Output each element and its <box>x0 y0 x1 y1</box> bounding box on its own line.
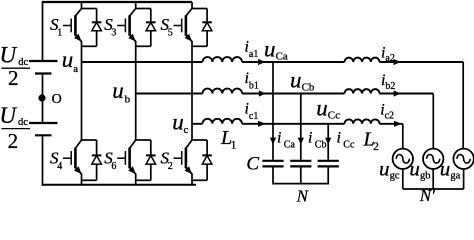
svg-text:Cc: Cc <box>343 140 355 151</box>
label C <box>246 154 259 175</box>
node u_a <box>62 47 78 75</box>
current arrow i_Ca <box>270 138 276 145</box>
svg-text:4: 4 <box>57 161 62 172</box>
svg-text:2: 2 <box>168 161 173 172</box>
wire: phase c from L2 to grid source <box>379 124 403 149</box>
node N&#8242; <box>419 186 435 205</box>
svg-text:Cb: Cb <box>315 140 327 151</box>
diode D4 (anti-parallel with S4) <box>82 140 102 180</box>
wire: capacitor neutral bus <box>272 183 329 185</box>
svg-text:u: u <box>112 78 124 103</box>
label i_b2 <box>381 72 395 92</box>
svg-text:ga: ga <box>450 171 460 182</box>
diode D1 (anti-parallel with S1) <box>82 9 102 47</box>
wire: top DC rail <box>43 1 193 3</box>
svg-text:u: u <box>409 156 420 180</box>
wire: phase b from bridge to L1 <box>136 93 203 95</box>
inductor L1 phase b <box>203 89 243 94</box>
inductor L2 phase c <box>345 119 380 123</box>
wire: phase a from bridge to L1 <box>82 61 203 63</box>
diode D3 (anti-parallel with S3) <box>136 9 156 47</box>
wire: capacitor branch Cc <box>327 124 329 160</box>
transistor S5 (top IGBT leg) <box>174 2 208 42</box>
node N <box>296 186 310 205</box>
svg-text:3: 3 <box>111 27 116 38</box>
node u_b <box>112 78 130 106</box>
DC source Udc/2 upper <box>29 61 58 74</box>
current arrow i_c1 <box>258 121 265 127</box>
transistor S6 (bottom IGBT leg) <box>117 140 151 186</box>
wire: capacitor branch Ca <box>272 62 274 160</box>
svg-text:Cb: Cb <box>302 82 315 94</box>
wire: left DC link lower segment <box>42 135 44 186</box>
inductor L1 phase a <box>203 57 243 62</box>
svg-text:5: 5 <box>168 27 173 38</box>
label i_a2 <box>381 44 395 64</box>
AC source u_ga <box>453 149 473 169</box>
wire: grid neutral bus <box>403 188 464 190</box>
label L2 <box>363 129 380 153</box>
node u_c <box>172 110 188 136</box>
transistor S1 (top IGBT leg) <box>63 2 97 42</box>
wire: source gb to neutral bus <box>432 169 434 189</box>
svg-text:c1: c1 <box>249 111 258 122</box>
label S3 <box>104 15 116 39</box>
current arrow i_a1 <box>258 59 265 65</box>
svg-text:N′: N′ <box>419 186 435 205</box>
wire: capacitor branch Cb <box>300 94 302 160</box>
svg-text:u: u <box>172 110 184 135</box>
svg-text:2: 2 <box>373 141 379 153</box>
wire: phase a from L2 to grid source <box>379 62 463 149</box>
wire: left DC link upper segment <box>42 1 44 60</box>
svg-text:dc: dc <box>18 117 28 128</box>
label S2 <box>161 148 173 172</box>
current arrow i_Cb <box>298 138 304 145</box>
svg-text:1: 1 <box>57 27 62 38</box>
svg-text:1: 1 <box>231 140 237 152</box>
label S6 <box>104 148 116 172</box>
svg-text:u: u <box>316 96 328 121</box>
capacitor C phase b <box>290 161 311 184</box>
label i_Ca <box>277 129 295 150</box>
label i_c1 <box>245 100 259 121</box>
label u_Ca <box>264 37 288 63</box>
wire: phase a from L1 to L2 <box>242 61 345 63</box>
inductor L2 phase a <box>345 58 380 62</box>
wire: phase b from L1 to L2 <box>242 93 345 95</box>
wire: source ga to neutral bus <box>463 169 465 189</box>
svg-text:c: c <box>184 124 189 136</box>
svg-text:u: u <box>62 47 74 72</box>
wire: leg vertical (phase node) <box>135 41 137 140</box>
svg-text:a: a <box>73 63 78 75</box>
svg-text:Cc: Cc <box>328 110 340 122</box>
svg-text:i: i <box>308 129 312 146</box>
svg-text:gc: gc <box>390 171 400 182</box>
label i_b1 <box>245 70 259 91</box>
current arrow i_a2 <box>394 59 401 65</box>
svg-text:u: u <box>264 37 276 62</box>
svg-text:6: 6 <box>111 161 116 172</box>
svg-text:a2: a2 <box>385 53 394 64</box>
svg-text:dc: dc <box>18 57 28 68</box>
label L1 <box>220 127 237 151</box>
transistor S3 (top IGBT leg) <box>117 2 151 42</box>
diode D2 (anti-parallel with S2) <box>192 140 212 180</box>
wire: leg vertical (phase node) <box>191 41 193 140</box>
transistor S4 (bottom IGBT leg) <box>63 140 97 186</box>
svg-text:N: N <box>296 186 310 205</box>
label u_Cc <box>316 96 340 122</box>
label u_Cb <box>290 68 315 94</box>
AC source u_gc <box>393 149 413 169</box>
label u_gb <box>409 156 430 181</box>
label S1 <box>50 15 62 39</box>
svg-text:U: U <box>0 42 18 67</box>
AC source u_gb <box>423 149 443 169</box>
svg-text:b: b <box>125 94 131 106</box>
label i_c2 <box>380 102 394 122</box>
svg-text:u: u <box>440 156 451 180</box>
svg-text:a1: a1 <box>249 49 258 60</box>
node O (DC midpoint) <box>38 92 61 107</box>
current arrow i_b2 <box>394 90 401 96</box>
current arrow i_c2 <box>394 121 401 127</box>
svg-text:Ca: Ca <box>284 140 296 151</box>
label i_Cb <box>308 129 326 150</box>
svg-text:u: u <box>290 68 302 93</box>
wire: phase c from bridge to L1 <box>192 123 203 125</box>
wire: leg vertical (phase node) <box>81 41 83 140</box>
inductor L1 phase c <box>203 119 243 124</box>
wire: phase b from L2 to grid source <box>379 94 433 149</box>
wire: source gc to neutral bus <box>402 169 404 189</box>
svg-text:2: 2 <box>8 66 19 90</box>
wire: phase c from L1 to L2 <box>242 123 345 125</box>
svg-text:i: i <box>277 129 281 146</box>
svg-text:i: i <box>337 129 341 146</box>
label i_Cc <box>337 129 355 150</box>
label Udc/2 lower <box>0 103 30 153</box>
label i_a1 <box>245 38 259 59</box>
DC source Udc/2 lower <box>29 123 58 135</box>
label S5 <box>161 15 173 39</box>
label Udc/2 upper <box>0 42 30 90</box>
wire: bottom DC rail <box>43 184 197 186</box>
current arrow i_Cc <box>325 138 331 145</box>
svg-text:O: O <box>52 92 62 107</box>
svg-text:Ca: Ca <box>276 51 288 63</box>
svg-text:C: C <box>246 154 259 175</box>
diode D5 (anti-parallel with S5) <box>192 9 212 47</box>
svg-text:c2: c2 <box>385 111 394 122</box>
diode D6 (anti-parallel with S6) <box>136 140 156 180</box>
svg-text:b1: b1 <box>249 80 259 91</box>
transistor S2 (bottom IGBT leg) <box>174 140 208 186</box>
current arrow i_b1 <box>259 90 266 96</box>
svg-text:2: 2 <box>8 129 19 153</box>
label S4 <box>50 148 62 172</box>
inductor L2 phase b <box>345 89 380 93</box>
wire: left DC link middle segment <box>42 74 44 123</box>
svg-text:b2: b2 <box>385 81 395 92</box>
svg-text:u: u <box>379 156 390 180</box>
label u_ga <box>440 156 461 181</box>
svg-text:U: U <box>0 103 17 128</box>
svg-text:gb: gb <box>420 171 431 182</box>
capacitor C phase c <box>318 161 339 184</box>
capacitor C phase a <box>262 161 283 184</box>
label u_gc <box>379 156 400 181</box>
